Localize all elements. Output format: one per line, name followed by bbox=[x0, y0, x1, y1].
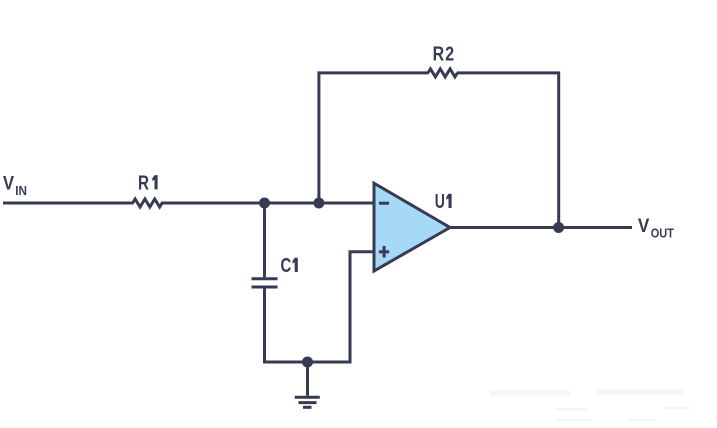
label R1 bbox=[138, 172, 158, 194]
wire C1 top lead bbox=[263, 203, 266, 277]
op-amp minus input symbol bbox=[379, 202, 389, 205]
resistor R1 bbox=[133, 199, 162, 207]
wire feedback left vertical bbox=[319, 73, 429, 205]
faint watermark bbox=[490, 390, 690, 422]
wire output bbox=[449, 226, 632, 229]
op-amp plus input symbol bbox=[379, 246, 389, 258]
svg-text:V: V bbox=[3, 174, 14, 195]
label VIN bbox=[3, 174, 27, 198]
node junction dot at C1 branch bbox=[259, 198, 270, 209]
wire input left segment bbox=[3, 202, 134, 205]
svg-text:IN: IN bbox=[15, 184, 27, 198]
wire R1 to inverting input bbox=[161, 202, 374, 205]
wire C1 bottom to non-inverting input bbox=[265, 252, 375, 362]
svg-text:U: U bbox=[435, 191, 445, 213]
svg-text:R: R bbox=[433, 43, 445, 65]
svg-text:OUT: OUT bbox=[651, 226, 675, 240]
svg-text:C: C bbox=[281, 255, 292, 277]
capacitor C1 bbox=[252, 279, 278, 287]
svg-text:R: R bbox=[138, 172, 149, 194]
node junction dot at output bbox=[553, 222, 564, 233]
ground bbox=[295, 362, 320, 407]
label R2 bbox=[433, 43, 454, 65]
node junction dot at feedback branch bbox=[313, 198, 324, 209]
label C1 bbox=[281, 255, 298, 277]
resistor R2 bbox=[428, 69, 457, 77]
label VOUT bbox=[638, 216, 674, 240]
wire feedback right vertical bbox=[457, 73, 559, 228]
op-amp U1 bbox=[374, 183, 450, 271]
node junction dot at ground bbox=[302, 357, 313, 368]
svg-text:V: V bbox=[638, 216, 650, 237]
label U1 bbox=[435, 191, 452, 213]
svg-text:2: 2 bbox=[445, 43, 454, 65]
